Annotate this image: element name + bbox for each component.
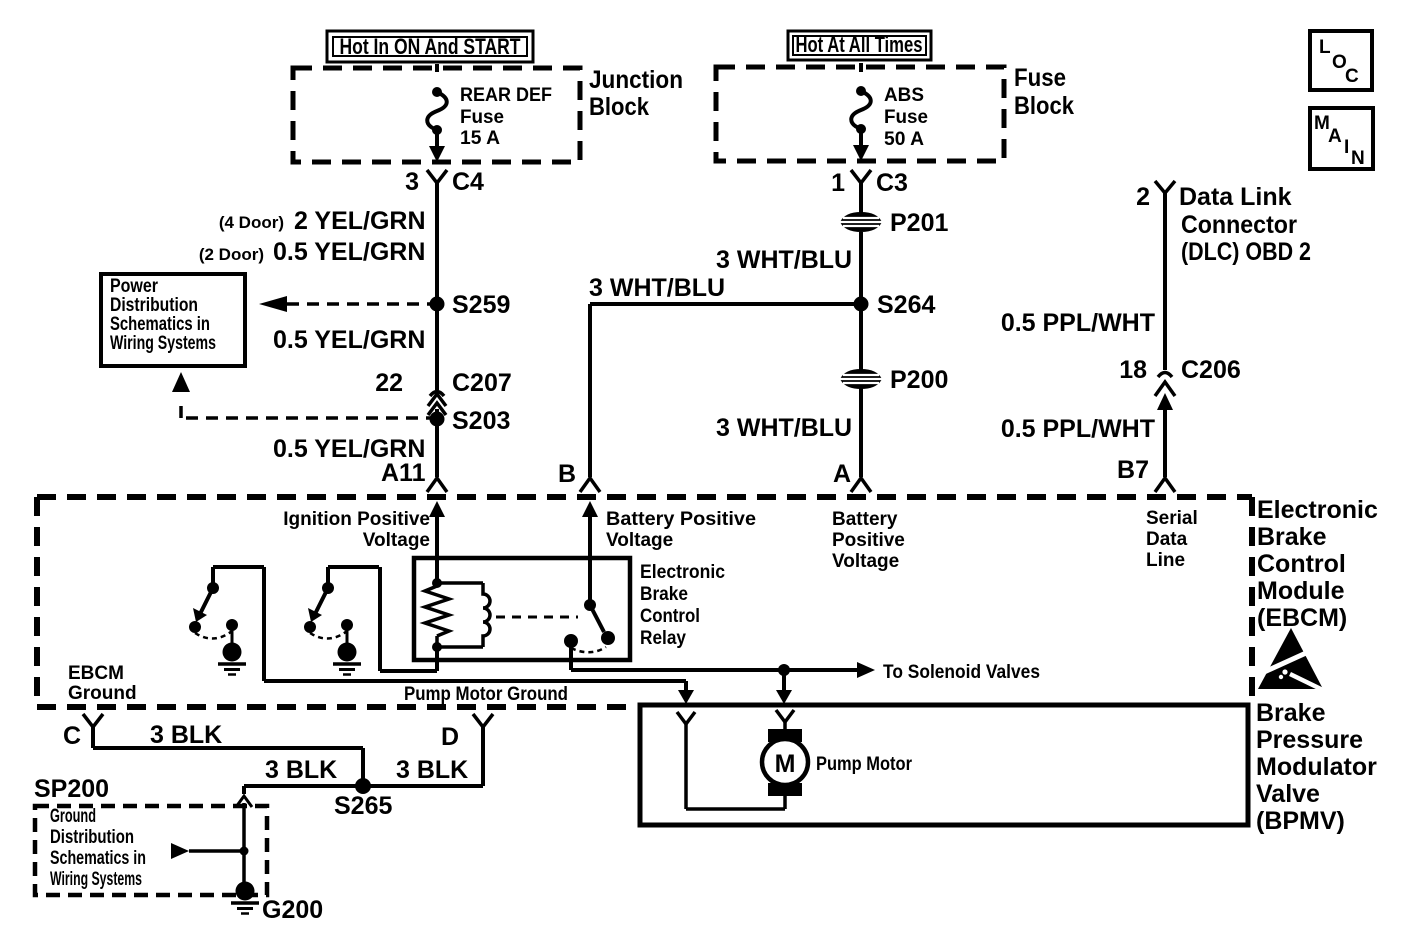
svg-text:0.5 PPL/WHT: 0.5 PPL/WHT xyxy=(1001,309,1155,337)
svg-text:(2 Door): (2 Door) xyxy=(199,245,264,264)
svg-text:3: 3 xyxy=(405,168,419,196)
svg-text:S203: S203 xyxy=(452,407,510,435)
svg-text:Block: Block xyxy=(1014,92,1074,120)
svg-text:Brake: Brake xyxy=(640,584,688,605)
svg-text:(BPMV): (BPMV) xyxy=(1256,807,1345,835)
svg-text:2: 2 xyxy=(1136,183,1150,211)
svg-text:Pump Motor: Pump Motor xyxy=(816,754,913,775)
svg-text:L: L xyxy=(1319,37,1331,58)
svg-text:Ground: Ground xyxy=(50,806,96,827)
svg-text:Wiring Systems: Wiring Systems xyxy=(50,869,142,890)
svg-text:N: N xyxy=(1351,148,1365,169)
svg-text:C3: C3 xyxy=(876,169,908,197)
svg-text:I: I xyxy=(1344,137,1349,158)
svg-text:0.5 PPL/WHT: 0.5 PPL/WHT xyxy=(1001,415,1155,443)
svg-text:P201: P201 xyxy=(890,209,948,237)
svg-text:Serial: Serial xyxy=(1146,508,1198,529)
svg-text:Ignition Positive: Ignition Positive xyxy=(283,509,430,530)
svg-text:Power: Power xyxy=(110,276,158,297)
svg-text:3 BLK: 3 BLK xyxy=(150,721,222,749)
svg-text:22: 22 xyxy=(375,369,403,397)
svg-text:0.5 YEL/GRN: 0.5 YEL/GRN xyxy=(273,326,425,354)
svg-text:Block: Block xyxy=(589,93,649,121)
svg-text:Electronic: Electronic xyxy=(640,562,725,583)
svg-text:50 A: 50 A xyxy=(884,129,924,150)
svg-text:P200: P200 xyxy=(890,366,948,394)
svg-text:Positive: Positive xyxy=(832,530,905,551)
svg-text:Fuse: Fuse xyxy=(884,107,928,128)
svg-text:C206: C206 xyxy=(1181,356,1241,384)
svg-text:Voltage: Voltage xyxy=(363,530,430,551)
svg-text:Wiring Systems: Wiring Systems xyxy=(110,333,216,354)
svg-text:A11: A11 xyxy=(381,459,426,487)
svg-text:EBCM: EBCM xyxy=(68,663,124,684)
svg-text:To Solenoid Valves: To Solenoid Valves xyxy=(883,662,1040,683)
svg-text:Control: Control xyxy=(640,606,700,627)
svg-text:Ground: Ground xyxy=(68,683,137,704)
svg-text:Battery Positive: Battery Positive xyxy=(606,509,756,530)
svg-text:C: C xyxy=(63,722,81,750)
svg-text:(EBCM): (EBCM) xyxy=(1257,604,1347,632)
svg-text:Voltage: Voltage xyxy=(832,551,899,572)
svg-text:2 YEL/GRN: 2 YEL/GRN xyxy=(294,207,426,235)
svg-text:Modulator: Modulator xyxy=(1256,753,1377,781)
svg-text:SP200: SP200 xyxy=(34,775,109,803)
svg-text:Fuse: Fuse xyxy=(1014,64,1066,92)
svg-text:Fuse: Fuse xyxy=(460,107,504,128)
svg-text:C207: C207 xyxy=(452,369,512,397)
svg-text:S259: S259 xyxy=(452,291,510,319)
svg-text:Pressure: Pressure xyxy=(1256,726,1363,754)
svg-text:Hot At All Times: Hot At All Times xyxy=(796,32,923,57)
svg-text:Voltage: Voltage xyxy=(606,530,673,551)
svg-text:3 WHT/BLU: 3 WHT/BLU xyxy=(716,414,852,442)
svg-text:D: D xyxy=(441,723,459,751)
svg-text:3 WHT/BLU: 3 WHT/BLU xyxy=(716,246,852,274)
svg-text:Data: Data xyxy=(1146,529,1188,550)
svg-text:Pump Motor Ground: Pump Motor Ground xyxy=(404,684,568,705)
svg-text:15 A: 15 A xyxy=(460,128,500,149)
svg-text:REAR DEF: REAR DEF xyxy=(460,85,552,106)
svg-text:Junction: Junction xyxy=(589,66,683,94)
svg-text:(4 Door): (4 Door) xyxy=(219,213,284,232)
svg-text:3 WHT/BLU: 3 WHT/BLU xyxy=(589,274,725,302)
svg-text:Schematics in: Schematics in xyxy=(110,314,210,335)
svg-text:A: A xyxy=(833,460,851,488)
svg-text:0.5 YEL/GRN: 0.5 YEL/GRN xyxy=(273,238,425,266)
svg-text:C4: C4 xyxy=(452,168,484,196)
svg-text:C: C xyxy=(1345,66,1359,87)
svg-text:B: B xyxy=(558,460,576,488)
svg-text:1: 1 xyxy=(831,169,845,197)
svg-text:Module: Module xyxy=(1257,577,1345,605)
svg-text:Line: Line xyxy=(1146,550,1185,571)
svg-text:B7: B7 xyxy=(1117,456,1149,484)
svg-text:Data Link: Data Link xyxy=(1179,183,1292,211)
svg-text:Control: Control xyxy=(1257,550,1346,578)
svg-text:3 BLK: 3 BLK xyxy=(265,756,337,784)
svg-text:Connector: Connector xyxy=(1181,211,1297,239)
svg-text:Brake: Brake xyxy=(1257,523,1327,551)
svg-text:3 BLK: 3 BLK xyxy=(396,756,468,784)
svg-text:S264: S264 xyxy=(877,291,935,319)
svg-text:ABS: ABS xyxy=(884,85,924,106)
svg-text:18: 18 xyxy=(1119,356,1147,384)
svg-text:Valve: Valve xyxy=(1256,780,1320,808)
svg-text:Brake: Brake xyxy=(1256,699,1326,727)
svg-text:S265: S265 xyxy=(334,792,392,820)
svg-text:M: M xyxy=(775,750,796,778)
svg-text:Electronic: Electronic xyxy=(1257,496,1378,524)
svg-text:Battery: Battery xyxy=(832,509,898,530)
svg-text:Distribution: Distribution xyxy=(50,827,134,848)
svg-text:G200: G200 xyxy=(262,896,323,924)
svg-text:Hot In ON And START: Hot In ON And START xyxy=(340,34,521,59)
svg-text:A: A xyxy=(1328,126,1342,147)
svg-text:Distribution: Distribution xyxy=(110,295,198,316)
svg-text:(DLC) OBD 2: (DLC) OBD 2 xyxy=(1181,238,1311,266)
svg-text:Schematics in: Schematics in xyxy=(50,848,146,869)
svg-text:Relay: Relay xyxy=(640,628,686,649)
